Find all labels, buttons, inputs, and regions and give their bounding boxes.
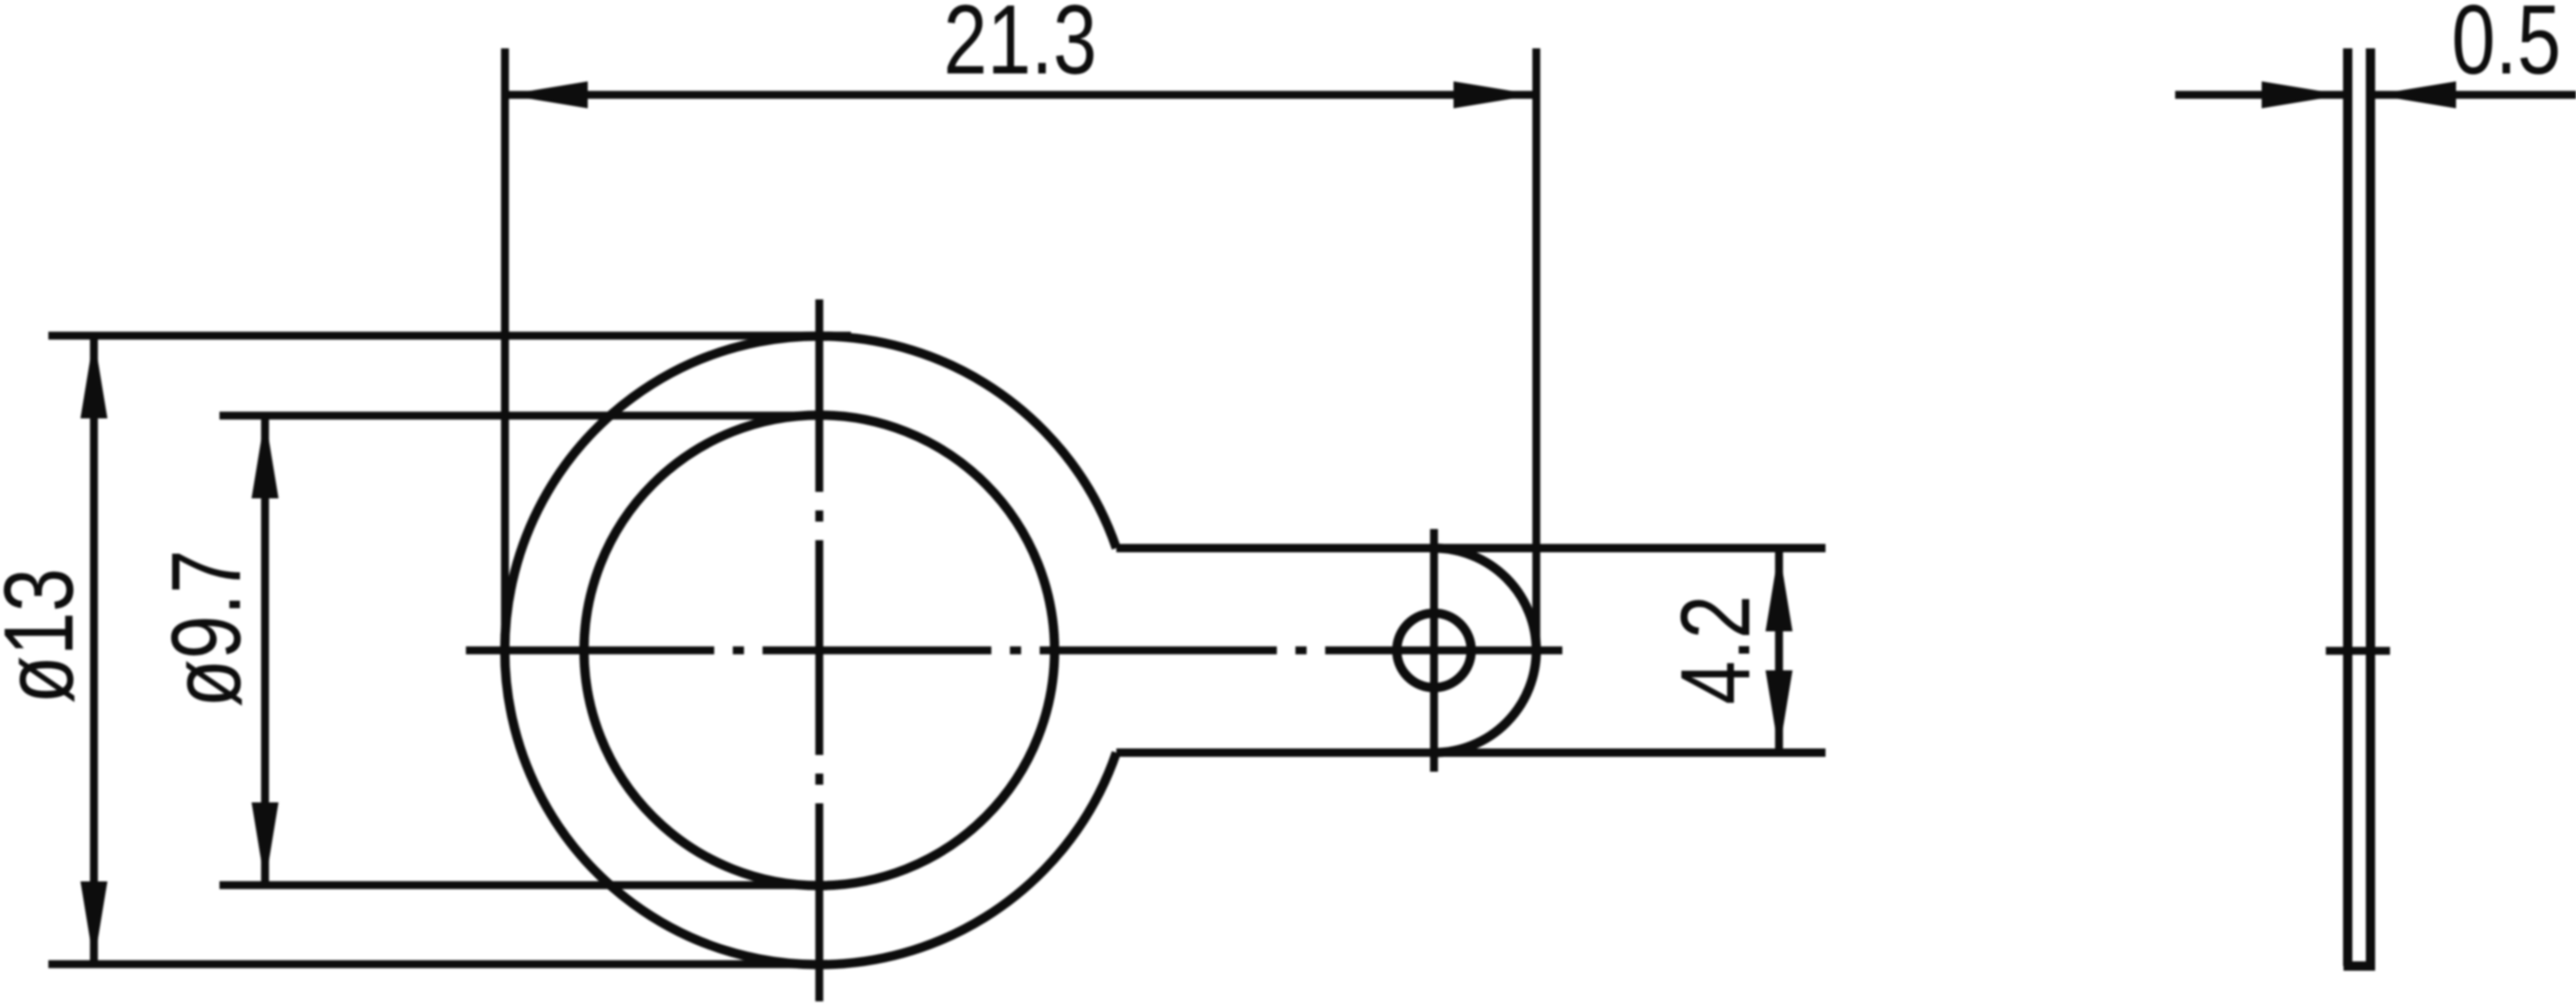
arrowhead 21.3 right: [1454, 82, 1535, 109]
dimension ø9.7 bottom extension line: [219, 881, 835, 890]
arrowhead 4.2 bottom: [1766, 670, 1793, 752]
dimension 21.3 dimension line: [505, 91, 1536, 99]
dimension ø9.7 dimension line: [261, 416, 270, 885]
dimension ø9.7 top extension line: [219, 412, 837, 420]
svg-text:0.5: 0.5: [2451, 0, 2561, 95]
dimension ø13 top extension line: [48, 332, 851, 340]
dimension ø13 dimension line: [90, 336, 99, 964]
dimension 4.2 dimension line: [1775, 549, 1784, 753]
arrowhead ø13 top: [81, 337, 108, 418]
side view bottom edge: [2344, 961, 2375, 971]
outer ring ø13 outline arc: [505, 336, 1117, 964]
arrowhead ø9.7 bottom: [252, 802, 279, 884]
inner hole circle ø9.7: [584, 416, 1055, 886]
svg-text:ø9.7: ø9.7: [152, 549, 261, 708]
dimension 21.3 right extension line: [1533, 48, 1541, 651]
dimension ø13 bottom extension line: [48, 960, 842, 969]
side view centerline tick: [2326, 647, 2390, 655]
dimension 0.5 left shaft: [2175, 91, 2344, 99]
svg-text:21.3: 21.3: [943, 0, 1096, 95]
tab bottom edge + 4.2 bottom extension line: [1116, 748, 1826, 757]
tab rounded end cap arc: [1434, 549, 1536, 753]
arrowhead 21.3 left: [506, 82, 588, 109]
dimension 21.3 left extension line: [501, 48, 510, 651]
tab top edge + 4.2 top extension line: [1116, 544, 1826, 552]
arrowhead 4.2 top: [1766, 549, 1793, 631]
small hole vertical centerline: [1430, 529, 1439, 772]
arrowhead ø9.7 top: [252, 417, 279, 498]
dimension 0.5 right shaft: [2374, 91, 2576, 99]
horizontal centerline (dash-dot): [466, 646, 1562, 655]
arrowhead ø13 bottom: [81, 881, 108, 963]
vertical centerline (dash-dot): [816, 299, 824, 1001]
arrowhead 0.5 pointing left: [2374, 82, 2456, 109]
svg-text:4.2: 4.2: [1661, 595, 1771, 705]
small rivet hole: [1397, 614, 1471, 688]
svg-text:ø13: ø13: [0, 568, 94, 704]
side view right edge: [2366, 48, 2375, 966]
side view left edge: [2344, 48, 2353, 966]
arrowhead 0.5 pointing right: [2262, 82, 2344, 109]
